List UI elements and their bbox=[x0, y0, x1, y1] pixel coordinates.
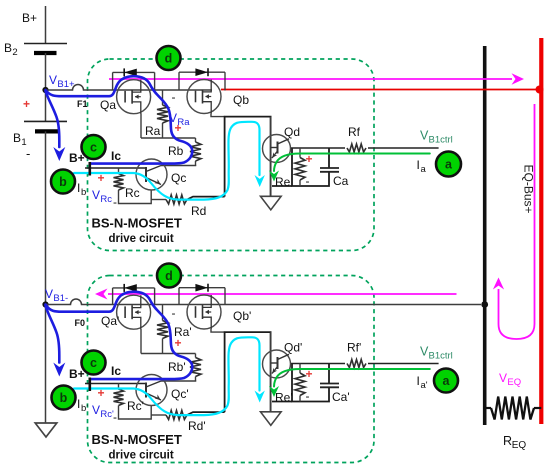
svg-text:d: d bbox=[165, 269, 173, 283]
svg-text:B+: B+ bbox=[69, 367, 85, 381]
svg-text:Rd: Rd bbox=[191, 204, 206, 218]
svg-text:a: a bbox=[421, 164, 427, 175]
svg-text:I: I bbox=[77, 397, 80, 411]
svg-text:Ic: Ic bbox=[111, 149, 121, 163]
svg-text:+: + bbox=[98, 171, 105, 185]
svg-text:Ca': Ca' bbox=[332, 390, 350, 404]
svg-text:b: b bbox=[60, 391, 68, 405]
svg-text:Qb: Qb bbox=[233, 93, 249, 107]
svg-text:Rc': Rc' bbox=[127, 399, 144, 413]
svg-text:Rf': Rf' bbox=[347, 341, 361, 355]
svg-text:drive circuit: drive circuit bbox=[109, 450, 174, 462]
svg-text:Qa: Qa bbox=[100, 98, 116, 112]
svg-text:-: - bbox=[113, 195, 117, 209]
svg-text:F1: F1 bbox=[77, 99, 88, 109]
svg-text:2: 2 bbox=[12, 47, 17, 58]
svg-text:B+: B+ bbox=[69, 151, 85, 165]
svg-text:V: V bbox=[499, 371, 507, 385]
svg-text:+: + bbox=[306, 152, 313, 166]
svg-text:b': b' bbox=[81, 403, 88, 414]
svg-text:Re: Re bbox=[275, 175, 291, 189]
svg-text:-: - bbox=[113, 410, 117, 424]
svg-text:B1ctrl: B1ctrl bbox=[429, 135, 453, 146]
svg-text:Rb: Rb bbox=[168, 144, 184, 158]
svg-text:Qc: Qc bbox=[171, 171, 186, 185]
svg-text:c: c bbox=[90, 141, 97, 155]
svg-text:Rb': Rb' bbox=[168, 360, 186, 374]
svg-text:-: - bbox=[172, 90, 176, 104]
svg-text:Qa': Qa' bbox=[101, 314, 119, 328]
svg-text:Re': Re' bbox=[275, 391, 293, 405]
svg-text:V: V bbox=[92, 403, 100, 417]
svg-text:+: + bbox=[306, 367, 313, 381]
svg-text:-: - bbox=[306, 174, 310, 188]
svg-text:F0: F0 bbox=[75, 318, 86, 328]
svg-text:-: - bbox=[26, 146, 30, 161]
svg-text:V: V bbox=[92, 188, 100, 202]
svg-text:d: d bbox=[165, 52, 173, 66]
svg-text:b: b bbox=[59, 175, 67, 189]
svg-text:Ca: Ca bbox=[333, 174, 349, 188]
svg-text:B1-: B1- bbox=[53, 293, 68, 304]
svg-text:V: V bbox=[45, 287, 53, 301]
svg-text:Rd': Rd' bbox=[188, 419, 206, 433]
svg-text:a: a bbox=[443, 374, 451, 388]
svg-text:a: a bbox=[445, 158, 453, 172]
svg-text:R: R bbox=[503, 434, 512, 448]
svg-text:Ra: Ra bbox=[145, 124, 161, 138]
svg-text:EQ: EQ bbox=[507, 377, 521, 388]
svg-text:Rc: Rc bbox=[125, 186, 140, 200]
svg-text:EQ: EQ bbox=[512, 440, 527, 451]
svg-text:Qd': Qd' bbox=[284, 341, 302, 355]
svg-text:Rf: Rf bbox=[348, 125, 361, 139]
svg-text:B1ctrl: B1ctrl bbox=[429, 351, 453, 362]
svg-text:b: b bbox=[81, 187, 86, 198]
svg-text:EQ-Bus+: EQ-Bus+ bbox=[522, 164, 536, 213]
svg-text:Qd: Qd bbox=[284, 125, 300, 139]
svg-text:+: + bbox=[175, 121, 182, 135]
svg-text:Rc: Rc bbox=[100, 194, 112, 205]
svg-text:Ic: Ic bbox=[111, 364, 121, 378]
svg-text:I: I bbox=[417, 158, 420, 172]
svg-text:B+: B+ bbox=[22, 11, 37, 25]
svg-text:Qc': Qc' bbox=[171, 387, 189, 401]
svg-text:a': a' bbox=[421, 380, 428, 391]
svg-text:+: + bbox=[175, 336, 182, 350]
svg-text:B: B bbox=[4, 41, 12, 55]
svg-text:+: + bbox=[98, 386, 105, 400]
svg-text:Rc': Rc' bbox=[100, 409, 114, 420]
svg-text:BS-N-MOSFET: BS-N-MOSFET bbox=[92, 432, 182, 447]
svg-text:I: I bbox=[417, 374, 420, 388]
svg-text:Qb': Qb' bbox=[233, 309, 251, 323]
svg-text:I: I bbox=[77, 181, 80, 195]
svg-text:BS-N-MOSFET: BS-N-MOSFET bbox=[92, 216, 182, 231]
svg-text:B1+: B1+ bbox=[57, 79, 75, 90]
svg-text:+: + bbox=[23, 97, 30, 111]
svg-text:drive circuit: drive circuit bbox=[109, 233, 174, 245]
svg-text:V: V bbox=[49, 73, 57, 87]
svg-text:-: - bbox=[172, 306, 176, 320]
svg-text:B: B bbox=[13, 131, 21, 145]
svg-text:c: c bbox=[90, 356, 97, 370]
svg-text:-: - bbox=[306, 389, 310, 403]
